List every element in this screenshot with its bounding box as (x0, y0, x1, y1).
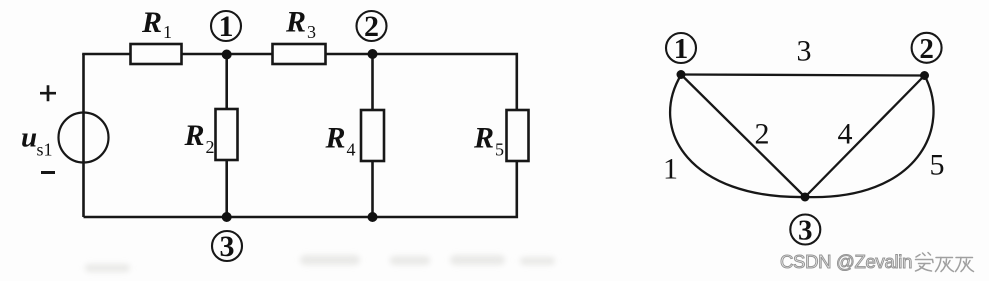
svg-text:4: 4 (347, 140, 356, 160)
svg-text:5: 5 (930, 149, 945, 182)
svg-text:3: 3 (307, 22, 316, 42)
svg-text:5: 5 (495, 140, 504, 160)
svg-text:3: 3 (798, 215, 813, 247)
graph edge 5 (arc) (805, 76, 945, 198)
node 1 junction dot (222, 50, 232, 60)
resistor R5 (473, 110, 529, 161)
resistor R2 (184, 54, 238, 217)
watermark CJK glyph ai (916, 253, 934, 272)
svg-text:s1: s1 (37, 140, 53, 160)
svg-text:1: 1 (163, 22, 172, 42)
wire bottom rail (84, 161, 517, 217)
svg-text:R: R (141, 6, 162, 39)
svg-text:u: u (21, 122, 37, 154)
svg-text:3: 3 (220, 230, 235, 263)
graph node 1 dot (677, 70, 686, 79)
watermark CJK glyph hui 1 (936, 258, 954, 272)
svg-text:R: R (473, 122, 494, 155)
node 2 junction dot (368, 49, 378, 59)
svg-text:4: 4 (838, 118, 853, 151)
svg-text:2: 2 (206, 137, 215, 157)
graph edge 3 (681, 35, 925, 76)
node 3 label circle (212, 230, 242, 263)
graph node 2 circle (912, 33, 942, 65)
graph node 1 circle (666, 33, 696, 65)
resistor R3 (273, 6, 326, 65)
watermark CSDN @Zevalin (780, 251, 912, 272)
graph edge 4 (805, 76, 925, 198)
wire top rail (84, 54, 517, 110)
resistor R1 (131, 6, 182, 64)
voltage source U_s1 (21, 85, 109, 172)
node 2 label circle (357, 10, 387, 43)
graph node 3 circle (790, 215, 820, 247)
svg-text:2: 2 (755, 118, 770, 151)
graph edge 2 (681, 75, 805, 198)
node 1 label circle (211, 10, 241, 43)
watermark CJK glyph hui 2 (956, 258, 974, 272)
svg-text:2: 2 (919, 33, 934, 65)
graph node 3 dot (801, 193, 810, 202)
svg-text:1: 1 (674, 33, 689, 65)
svg-text:1: 1 (663, 153, 678, 186)
graph node 2 dot (920, 71, 929, 80)
svg-text:1: 1 (219, 10, 234, 43)
svg-text:CSDN @Zevalin: CSDN @Zevalin (780, 251, 912, 272)
resistor R4 (325, 54, 385, 217)
wire left rail (82, 54, 85, 217)
junction dot under R4 (368, 212, 378, 222)
svg-text:R: R (184, 119, 205, 152)
svg-text:3: 3 (797, 35, 812, 68)
node 3 junction dot (222, 212, 232, 222)
svg-text:R: R (325, 122, 346, 155)
svg-text:2: 2 (364, 10, 379, 43)
svg-text:R: R (285, 6, 306, 39)
graph edge 1 (arc) (663, 75, 805, 197)
